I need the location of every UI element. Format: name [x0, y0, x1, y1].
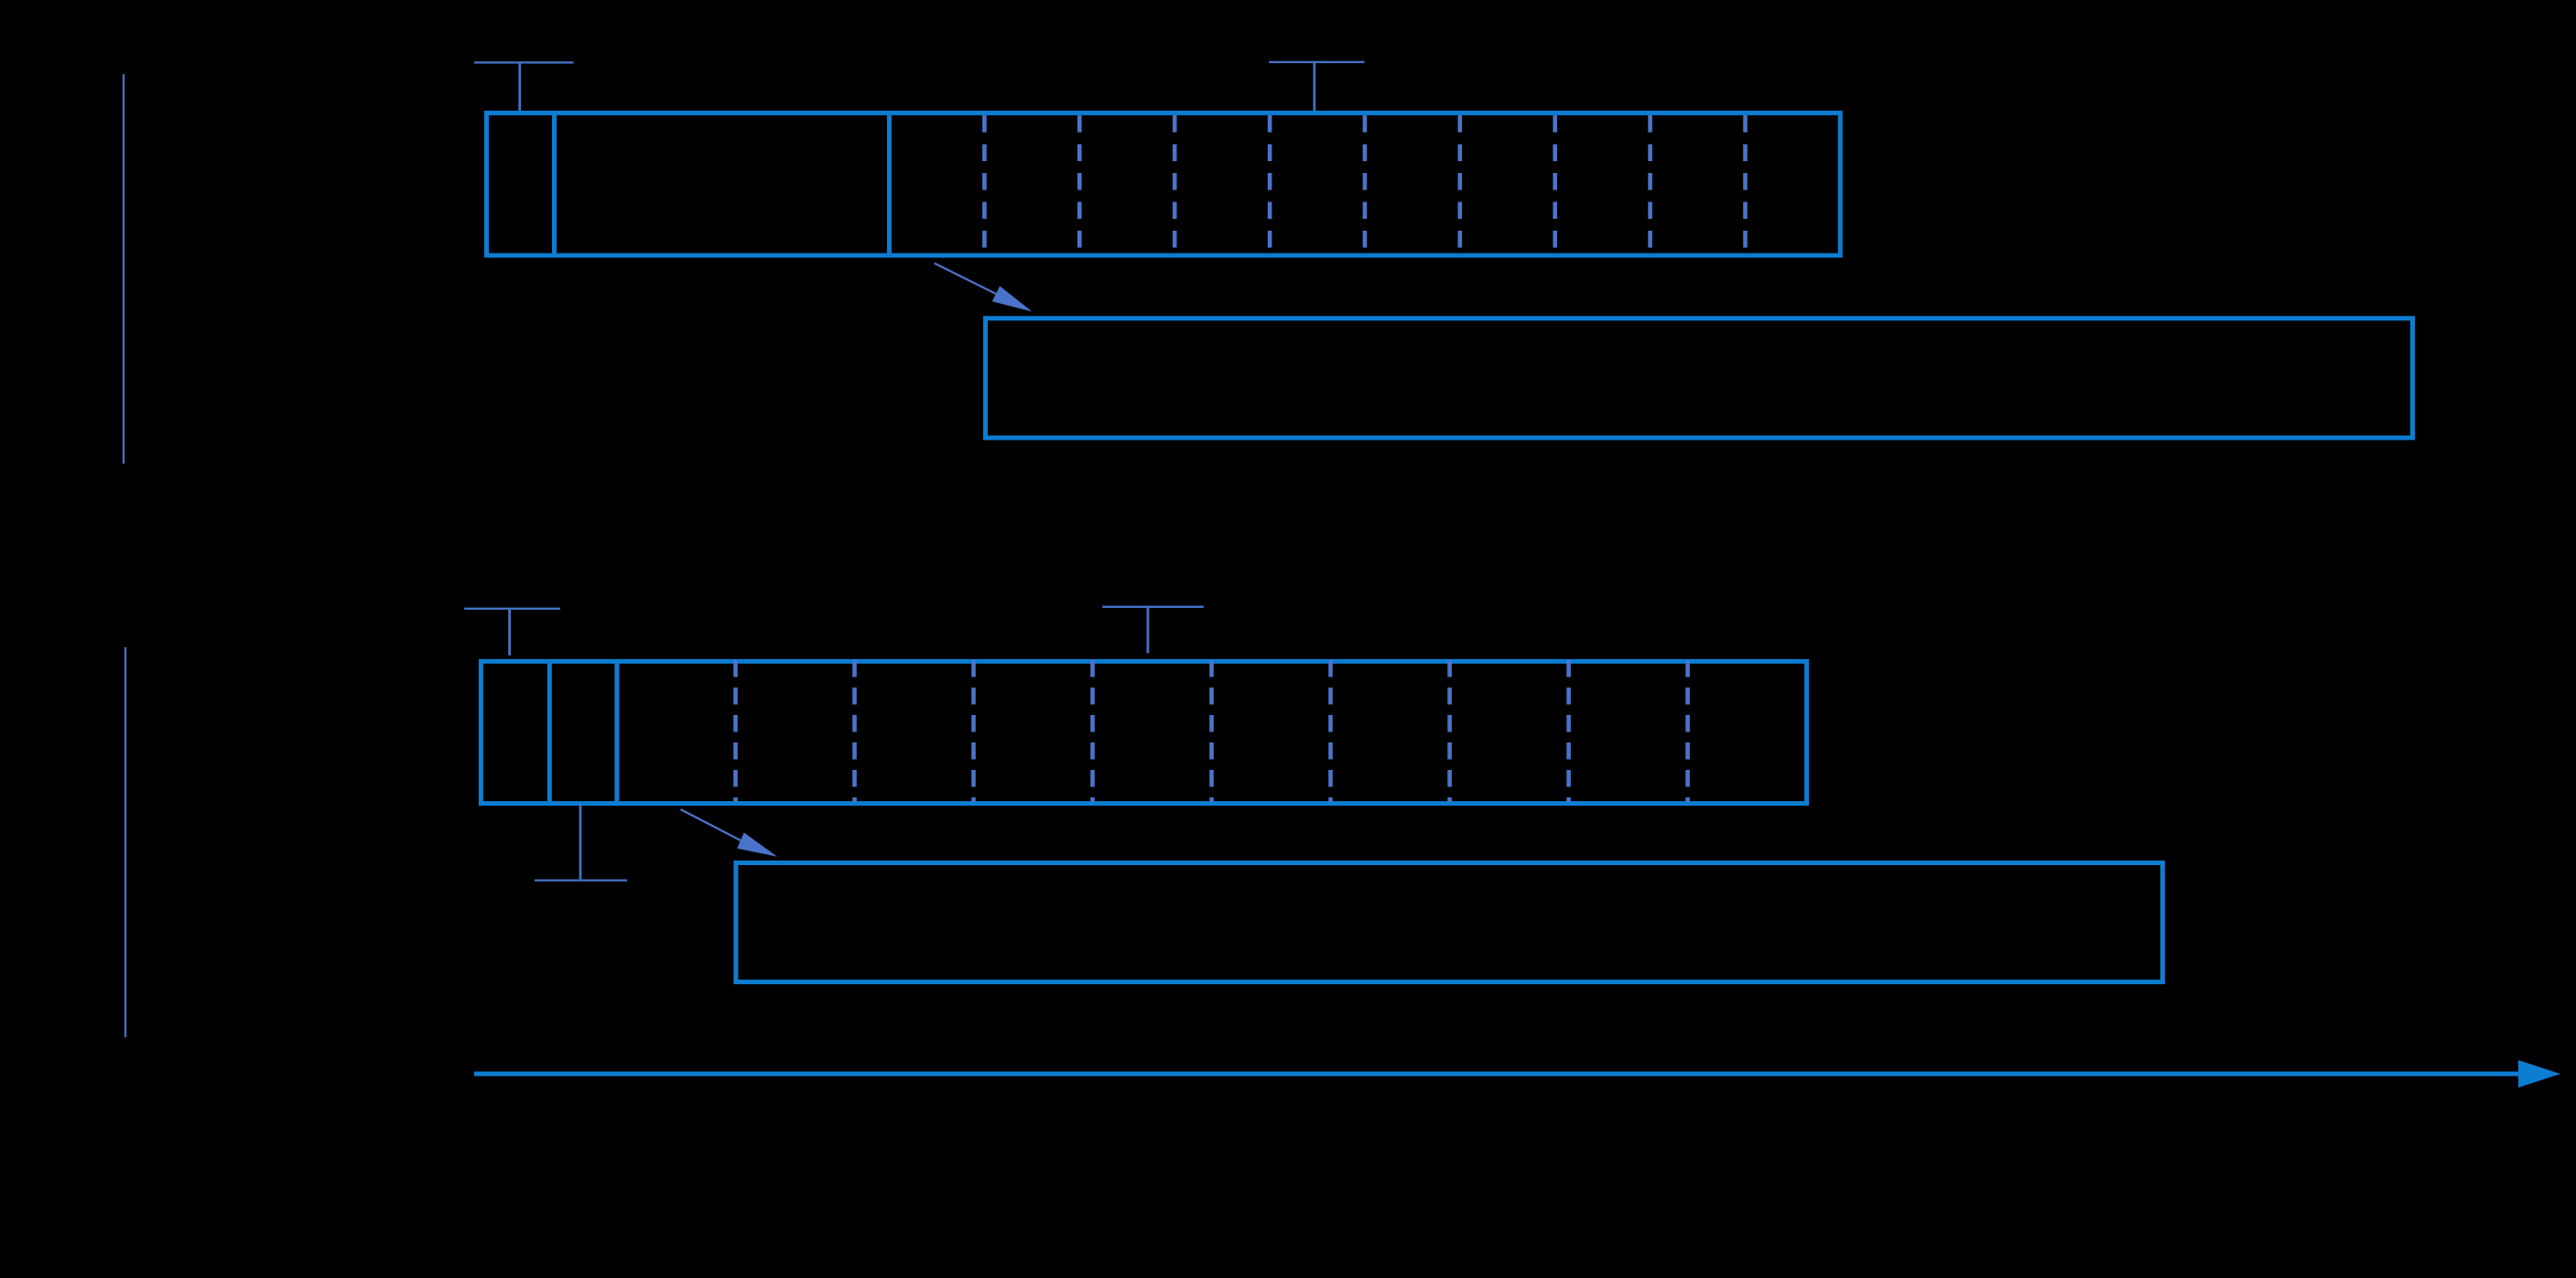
solid divider 2 row 2 — [614, 661, 619, 803]
T marker 1 row 1 — [474, 62, 574, 112]
dashed dividers row 1 — [984, 115, 1745, 254]
solid divider 1 row 2 — [547, 661, 552, 803]
time axis arrow — [474, 1060, 2560, 1088]
T marker 2 row 1 — [1269, 62, 1364, 112]
T marker 1 row 2 — [464, 609, 560, 655]
left vertical line row 2 — [124, 647, 126, 1037]
frame rect row 2 — [481, 661, 1806, 803]
inverted T marker below row 2 — [535, 804, 627, 881]
callout arrow row 1 — [935, 264, 1033, 312]
callout arrow row 2 — [681, 809, 778, 857]
detail rect row 1 — [986, 319, 2413, 439]
frame rect row 1 — [487, 113, 1841, 255]
solid divider 2 row 1 — [887, 113, 892, 255]
dashed dividers row 2 — [736, 660, 1688, 802]
solid divider 1 row 1 — [552, 113, 557, 255]
detail rect row 2 — [736, 863, 2162, 982]
T marker 2 row 2 — [1102, 607, 1204, 654]
left vertical line row 1 — [123, 74, 124, 464]
